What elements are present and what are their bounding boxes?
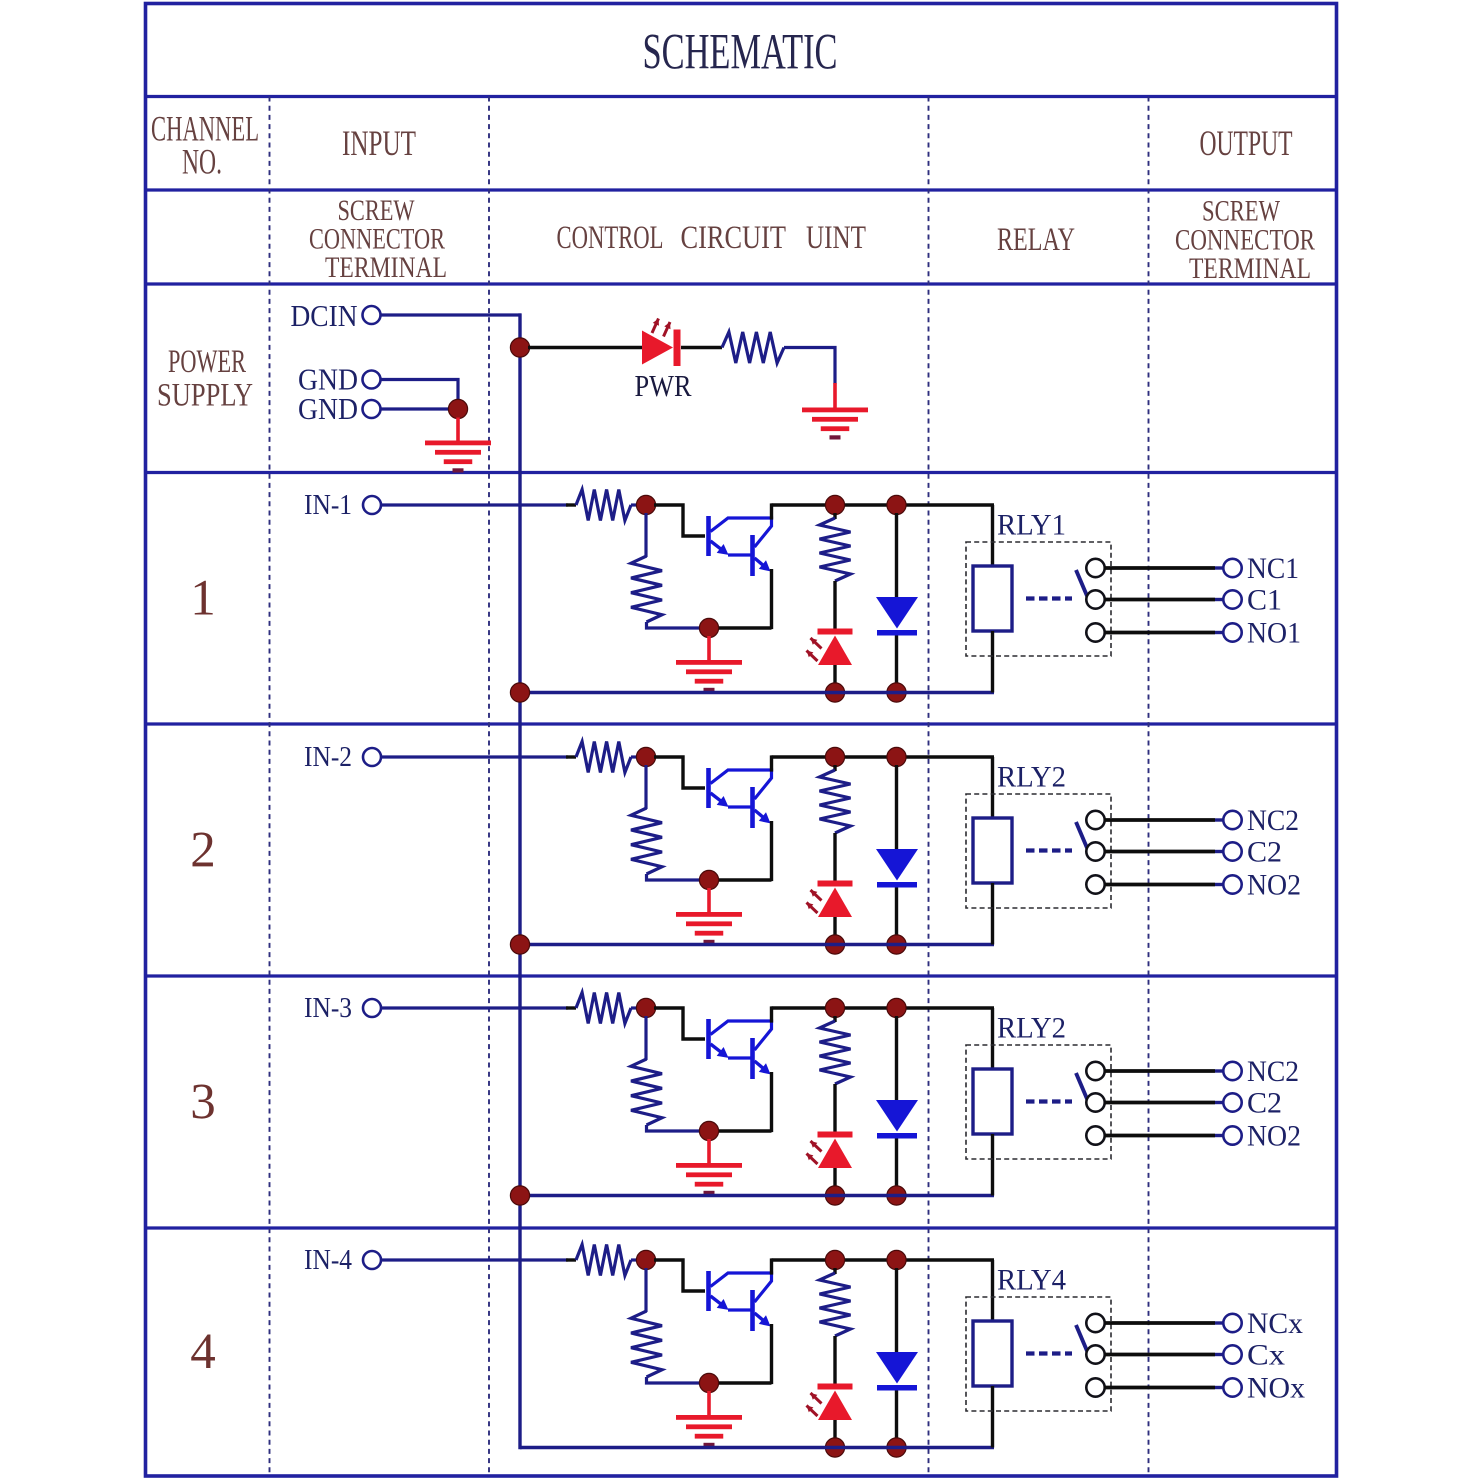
wire NC2 output — [1105, 1069, 1216, 1073]
resistor input ch1 — [576, 490, 631, 521]
wire GND upper — [381, 380, 458, 402]
relay actuator dashes ch4 — [1026, 1351, 1072, 1355]
LED triangle ch4 — [818, 1391, 852, 1421]
node diode branch ch4 — [887, 1250, 906, 1269]
node diode bottom ch3 — [887, 1186, 906, 1205]
LED PWR triangle — [642, 331, 673, 365]
relay box RLY2 — [966, 794, 1111, 908]
transistor Q1 emitter ch3 — [711, 1044, 724, 1054]
wire emitter to ground ch2 — [716, 878, 772, 881]
wire LED to rail ch1 — [833, 665, 836, 686]
node LED bottom ch1 — [825, 683, 844, 702]
wire bottom rail ch2 — [520, 943, 994, 946]
wire collector to rail ch4 — [770, 1258, 773, 1274]
svg-text:C1: C1 — [1247, 584, 1282, 617]
node LED branch ch2 — [825, 747, 844, 766]
svg-text:GND: GND — [298, 391, 358, 426]
wire base ch2 — [654, 757, 705, 788]
svg-text:NC1: NC1 — [1247, 552, 1299, 585]
wire emitter to ground ch3 — [716, 1129, 772, 1132]
terminal C1 — [1223, 590, 1241, 608]
LED emission arrows ch1 — [807, 638, 822, 661]
wire rail to diode ch3 — [895, 1016, 898, 1101]
wire collector to rail ch1 — [770, 503, 773, 519]
table dashed column line x928 — [928, 97, 930, 1475]
wire diode to rail ch1 — [895, 636, 898, 687]
resistor LED ch2 — [820, 770, 851, 833]
diode flyback ch1 — [876, 597, 918, 629]
svg-text:Cx: Cx — [1247, 1339, 1285, 1372]
relay switch contact NO ch3 — [1086, 1126, 1104, 1144]
svg-text:2: 2 — [190, 823, 216, 879]
wire bus to PWR LED — [528, 346, 642, 349]
transistor Q1 collector ch4 — [711, 1273, 772, 1302]
wire emitter to ground ch1 — [716, 626, 772, 629]
wire relay coil to rail ch2 — [991, 883, 994, 945]
svg-text:TERMINAL: TERMINAL — [1189, 252, 1311, 285]
terminal IN-3 — [363, 999, 381, 1017]
terminal NC1 — [1223, 559, 1241, 577]
wire rail to LED resistor ch1 — [833, 513, 836, 519]
relay coil RLY4 — [973, 1321, 1012, 1386]
svg-text:3: 3 — [190, 1075, 216, 1131]
terminal C2 — [1223, 842, 1241, 860]
wire base ch1 — [654, 505, 705, 536]
node LED branch ch4 — [825, 1250, 844, 1269]
terminal IN-4 — [363, 1251, 381, 1269]
header SCREW CONNECTOR TERMINAL (output) — [1175, 195, 1315, 286]
table horizontal line y724 — [144, 722, 1337, 725]
wire PWR LED to resistor — [681, 346, 722, 349]
LED PWR emission arrows — [652, 319, 671, 337]
wire node to base resistor ch1 — [644, 513, 647, 557]
resistor base ch3 — [631, 1059, 662, 1125]
terminal GND lower — [363, 400, 381, 418]
node bus ch1 — [510, 683, 529, 702]
terminal NOx — [1223, 1378, 1241, 1396]
wire rail to diode ch2 — [895, 765, 898, 850]
wire collector to rail ch2 — [770, 755, 773, 771]
svg-text:PWR: PWR — [635, 368, 692, 403]
transistor Q2 base bar ch3 — [750, 1038, 755, 1079]
table dashed column line x1148 — [1148, 97, 1150, 1475]
resistor base ch4 — [631, 1311, 662, 1377]
wire base ch4 — [654, 1260, 705, 1291]
node base ch3 — [636, 998, 655, 1017]
relay switch contact C ch1 — [1086, 590, 1104, 608]
ground ch3 — [676, 1163, 742, 1195]
node diode bottom ch4 — [887, 1438, 906, 1457]
node diode branch ch2 — [887, 747, 906, 766]
wire top rail ch1 — [772, 503, 995, 506]
wire Cx output — [1105, 1353, 1216, 1357]
transistor Q2 emitter ch3 — [755, 1061, 765, 1069]
transistor Q1 emitter ch2 — [711, 793, 724, 803]
svg-text:IN-3: IN-3 — [304, 992, 352, 1024]
relay lever ch4 — [1076, 1325, 1088, 1352]
relay lever ch2 — [1076, 822, 1088, 849]
wire IN-3 to resistor — [382, 1006, 569, 1009]
node bus ch2 — [510, 935, 529, 954]
wire emitter down ch1 — [770, 569, 773, 629]
terminal Cx — [1223, 1345, 1241, 1363]
LED PWR cathode bar — [674, 330, 681, 367]
transistor Q1 base bar ch2 — [706, 768, 711, 808]
table horizontal line y284 — [144, 282, 1337, 285]
svg-text:RLY2: RLY2 — [997, 761, 1066, 794]
node diode branch ch1 — [887, 495, 906, 514]
node LED bottom ch2 — [825, 935, 844, 954]
node base ch4 — [636, 1250, 655, 1269]
ground GND input — [425, 441, 491, 473]
relay box RLY1 — [966, 542, 1111, 656]
svg-text:POWER: POWER — [168, 344, 246, 380]
wire rail to relay coil ch1 — [991, 505, 994, 568]
LED cathode bar ch2 — [818, 881, 853, 887]
wire emitter down ch4 — [770, 1324, 773, 1384]
terminal NO2 — [1223, 1126, 1241, 1144]
wire collector to rail ch3 — [770, 1006, 773, 1022]
wire relay coil to rail ch4 — [991, 1386, 994, 1448]
wire IN-4 to resistor — [382, 1258, 569, 1261]
LED cathode bar ch3 — [818, 1132, 853, 1138]
LED emission arrows ch2 — [807, 890, 822, 913]
wire IN-2 to resistor — [382, 755, 569, 758]
relay switch contact NC ch1 — [1086, 559, 1104, 577]
wire rail to diode ch1 — [895, 513, 898, 598]
svg-text:NOx: NOx — [1247, 1372, 1305, 1405]
table outer border — [146, 4, 1337, 1477]
wire LED resistor to LED ch3 — [833, 1084, 836, 1132]
transistor Q1 base bar ch1 — [706, 516, 711, 556]
wire C2 output — [1105, 1101, 1216, 1105]
svg-text:NC2: NC2 — [1247, 804, 1299, 837]
wire resistor to node ch4 — [631, 1258, 640, 1261]
resistor input ch2 — [576, 742, 631, 773]
svg-text:C2: C2 — [1247, 836, 1282, 869]
node LED bottom ch4 — [825, 1438, 844, 1457]
diode flyback ch2 — [876, 849, 918, 881]
transistor Q2 emitter ch1 — [755, 558, 765, 566]
wire base resistor to ground ch3 — [647, 1125, 703, 1131]
wire stub (black) ch2 — [566, 755, 576, 758]
wire NC1 output — [1105, 566, 1216, 570]
node power branch — [510, 338, 529, 357]
resistor base ch1 — [631, 556, 662, 622]
relay actuator dashes ch3 — [1026, 1099, 1072, 1103]
transistor Q1 base bar ch3 — [706, 1019, 711, 1059]
wire LED to rail ch4 — [833, 1420, 836, 1441]
diode flyback ch4 — [876, 1352, 918, 1384]
wire ground lead (red) — [833, 383, 837, 409]
relay switch contact NC ch3 — [1086, 1062, 1104, 1080]
wire NCx output — [1105, 1321, 1216, 1325]
node LED branch ch3 — [825, 998, 844, 1017]
relay coil RLY1 — [973, 566, 1012, 631]
relay box RLY2 — [966, 1045, 1111, 1159]
resistor input ch4 — [576, 1245, 631, 1276]
svg-text:RLY4: RLY4 — [997, 1264, 1066, 1297]
wire node to base resistor ch4 — [644, 1268, 647, 1312]
resistor PWR series — [722, 332, 784, 363]
svg-text:NO2: NO2 — [1247, 869, 1301, 902]
wire Q1 emitter to Q2 base ch1 — [728, 553, 751, 556]
table horizontal line y190 — [144, 188, 1337, 191]
svg-text:4: 4 — [190, 1324, 216, 1380]
transistor Q1 collector ch1 — [711, 518, 772, 547]
relay actuator dashes ch1 — [1026, 596, 1072, 600]
node bus ch3 — [510, 1186, 529, 1205]
wire base resistor to ground ch2 — [647, 874, 703, 880]
wire bottom rail ch3 — [520, 1194, 994, 1197]
relay switch contact NC ch4 — [1086, 1314, 1104, 1332]
diode flyback ch3 — [876, 1100, 918, 1132]
svg-text:NO2: NO2 — [1247, 1120, 1301, 1153]
wire base ch3 — [654, 1008, 705, 1039]
wire ground lead ch4 — [707, 1391, 711, 1417]
svg-text:UINT: UINT — [806, 220, 866, 256]
relay switch contact C ch3 — [1086, 1093, 1104, 1111]
table horizontal line y976 — [144, 974, 1337, 977]
wire C1 output — [1105, 598, 1216, 602]
svg-text:CONTROL: CONTROL — [557, 220, 664, 256]
relay switch contact NO ch2 — [1086, 875, 1104, 893]
relay switch contact NC ch2 — [1086, 811, 1104, 829]
transistor Q2 base bar ch1 — [750, 535, 755, 576]
node GND junction — [448, 399, 467, 418]
wire ground lead ch3 — [707, 1139, 711, 1165]
wire rail to LED resistor ch2 — [833, 765, 836, 771]
wire rail to relay coil ch4 — [991, 1260, 994, 1323]
wire diode to rail ch2 — [895, 888, 898, 939]
ground ch4 — [676, 1415, 742, 1447]
svg-text:RLY1: RLY1 — [997, 509, 1066, 542]
transistor Q2 base bar ch2 — [750, 787, 755, 828]
terminal NC2 — [1223, 811, 1241, 829]
wire top rail ch2 — [772, 755, 995, 758]
wire emitter to ground ch4 — [716, 1381, 772, 1384]
relay lever ch3 — [1076, 1073, 1088, 1100]
table dashed column line x489 — [488, 97, 490, 1475]
svg-text:RELAY: RELAY — [997, 222, 1075, 258]
wire ground lead ch1 — [707, 636, 711, 662]
svg-text:TERMINAL: TERMINAL — [325, 251, 447, 284]
wire emitter down ch3 — [770, 1072, 773, 1132]
wire LED resistor to LED ch1 — [833, 581, 836, 629]
relay lever ch1 — [1076, 570, 1088, 597]
svg-text:SCHEMATIC: SCHEMATIC — [643, 25, 838, 81]
wire rail to relay coil ch3 — [991, 1008, 994, 1071]
wire NOx output — [1105, 1386, 1216, 1390]
table horizontal line y96 — [144, 95, 1337, 98]
wire NO2 output — [1105, 1134, 1216, 1138]
resistor input ch3 — [576, 993, 631, 1024]
wire resistor to node ch3 — [631, 1006, 640, 1009]
svg-text:1: 1 — [190, 571, 216, 627]
wire LED to rail ch3 — [833, 1168, 836, 1189]
wire main DCIN bus — [518, 313, 521, 1449]
ground ch1 — [676, 660, 742, 692]
svg-text:NO.: NO. — [182, 142, 222, 182]
transistor Q1 collector ch3 — [711, 1021, 772, 1050]
svg-text:NO1: NO1 — [1247, 617, 1301, 650]
LED triangle ch2 — [818, 888, 852, 918]
node ground ch2 — [699, 870, 718, 889]
node diode bottom ch2 — [887, 935, 906, 954]
wire emitter down ch2 — [770, 821, 773, 881]
node bus ch4 — [0, 0, 1, 1]
svg-text:OUTPUT: OUTPUT — [1200, 123, 1293, 163]
wire NO1 output — [1105, 631, 1216, 635]
resistor LED ch1 — [820, 518, 851, 581]
relay switch contact C ch4 — [1086, 1345, 1104, 1363]
wire rail to diode ch4 — [895, 1268, 898, 1353]
wire bottom rail ch4 — [520, 1446, 994, 1449]
LED emission arrows ch4 — [807, 1393, 822, 1416]
table horizontal line y1228 — [144, 1226, 1337, 1229]
wire base resistor to ground ch1 — [647, 622, 703, 628]
node diode branch ch3 — [887, 998, 906, 1017]
ground PWR — [802, 408, 868, 440]
wire C2 output — [1105, 850, 1216, 854]
wire Q1 emitter to Q2 base ch2 — [728, 805, 751, 808]
terminal NO2 — [1223, 875, 1241, 893]
wire stub (black) ch3 — [566, 1006, 576, 1009]
wire LED to rail ch2 — [833, 917, 836, 938]
resistor LED ch3 — [820, 1021, 851, 1084]
node base ch1 — [636, 495, 655, 514]
LED cathode bar ch1 — [818, 629, 853, 635]
terminal NO1 — [1223, 623, 1241, 641]
wire rail to LED resistor ch4 — [833, 1268, 836, 1274]
wire rail to LED resistor ch3 — [833, 1016, 836, 1022]
wire top rail ch4 — [772, 1258, 995, 1261]
wire GND ground lead (red) — [456, 418, 460, 442]
wire stub (black) ch1 — [566, 503, 576, 506]
wire base resistor to ground ch4 — [647, 1377, 703, 1383]
wire DCIN to bus — [381, 313, 521, 316]
transistor Q1 emitter ch4 — [711, 1296, 724, 1306]
transistor Q2 base bar ch4 — [750, 1290, 755, 1331]
terminal NCx — [1223, 1314, 1241, 1332]
table dashed column line x269 — [269, 97, 271, 1475]
ground ch2 — [676, 912, 742, 944]
svg-text:INPUT: INPUT — [342, 123, 416, 163]
header CONTROL CIRCUIT UINT — [557, 220, 867, 256]
svg-text:IN-2: IN-2 — [304, 741, 352, 773]
node diode bottom ch1 — [887, 683, 906, 702]
wire LED resistor to LED ch4 — [833, 1336, 836, 1384]
LED triangle ch3 — [818, 1139, 852, 1169]
terminal IN-2 — [363, 748, 381, 766]
node ground ch1 — [699, 618, 718, 637]
wire resistor to node ch1 — [631, 503, 640, 506]
wire LED resistor to LED ch2 — [833, 833, 836, 881]
wire ground lead ch2 — [707, 888, 711, 914]
transistor Q1 emitter ch1 — [711, 541, 724, 551]
wire resistor to node ch2 — [631, 755, 640, 758]
wire bottom rail ch1 — [520, 691, 994, 694]
LED triangle ch1 — [818, 636, 852, 666]
svg-text:C2: C2 — [1247, 1087, 1282, 1120]
wire node to base resistor ch3 — [644, 1016, 647, 1060]
svg-text:SUPPLY: SUPPLY — [157, 377, 253, 413]
resistor base ch2 — [631, 808, 662, 874]
terminal IN-1 — [363, 496, 381, 514]
svg-text:NCx: NCx — [1247, 1307, 1303, 1340]
wire Q1 emitter to Q2 base ch3 — [728, 1056, 751, 1059]
node LED bottom ch3 — [825, 1186, 844, 1205]
wire NO2 output — [1105, 883, 1216, 887]
wire node to base resistor ch2 — [644, 765, 647, 809]
svg-text:DCIN: DCIN — [291, 298, 358, 333]
wire relay coil to rail ch1 — [991, 631, 994, 693]
wire diode to rail ch4 — [895, 1391, 898, 1442]
terminal C2 — [1223, 1093, 1241, 1111]
node LED branch ch1 — [825, 495, 844, 514]
wire NC2 output — [1105, 818, 1216, 822]
wire relay coil to rail ch3 — [991, 1134, 994, 1196]
svg-text:CIRCUIT: CIRCUIT — [681, 220, 787, 256]
node ground ch3 — [699, 1121, 718, 1140]
LED cathode bar ch4 — [818, 1384, 853, 1390]
svg-text:IN-4: IN-4 — [304, 1244, 352, 1276]
relay coil RLY2 — [973, 818, 1012, 883]
relay box RLY4 — [966, 1297, 1111, 1411]
header CHANNEL NO. — [151, 108, 259, 181]
wire stub (black) ch4 — [566, 1258, 576, 1261]
wire Q1 emitter to Q2 base ch4 — [728, 1308, 751, 1311]
table horizontal line y472 — [144, 471, 1337, 474]
svg-text:NC2: NC2 — [1247, 1055, 1299, 1088]
wire IN-1 to resistor — [382, 503, 569, 506]
wire resistor to ground drop — [784, 348, 835, 385]
transistor Q2 emitter ch4 — [755, 1313, 765, 1321]
relay switch contact C ch2 — [1086, 842, 1104, 860]
relay actuator dashes ch2 — [1026, 848, 1072, 852]
node ground ch4 — [699, 1373, 718, 1392]
resistor LED ch4 — [820, 1273, 851, 1336]
header SCREW CONNECTOR TERMINAL (input) — [309, 194, 447, 284]
LED emission arrows ch3 — [807, 1141, 822, 1164]
transistor Q2 emitter ch2 — [755, 810, 765, 818]
wire GND lower — [381, 407, 452, 410]
wire top rail ch3 — [772, 1006, 995, 1009]
wire rail to relay coil ch2 — [991, 757, 994, 820]
relay switch contact NO ch4 — [1086, 1378, 1104, 1396]
terminal GND upper — [363, 371, 381, 389]
relay coil RLY2 — [973, 1069, 1012, 1134]
svg-text:RLY2: RLY2 — [997, 1012, 1066, 1045]
transistor Q1 collector ch2 — [711, 770, 772, 799]
terminal NC2 — [1223, 1062, 1241, 1080]
node base ch2 — [636, 747, 655, 766]
row label POWER SUPPLY — [157, 344, 253, 414]
svg-text:IN-1: IN-1 — [304, 489, 352, 521]
terminal DCIN — [363, 306, 381, 324]
relay switch contact NO ch1 — [1086, 623, 1104, 641]
wire diode to rail ch3 — [895, 1139, 898, 1190]
transistor Q1 base bar ch4 — [706, 1271, 711, 1311]
